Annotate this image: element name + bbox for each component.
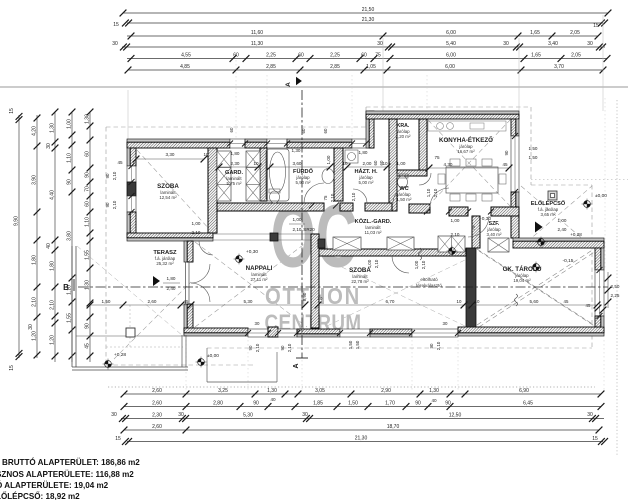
svg-text:1,80: 1,80 — [49, 261, 55, 271]
svg-text:1,50: 1,50 — [529, 155, 538, 160]
svg-text:6,90: 6,90 — [519, 388, 529, 394]
svg-text:10: 10 — [457, 299, 462, 304]
svg-text:3,05: 3,05 — [315, 388, 325, 394]
pillar nappali bottom — [268, 327, 278, 337]
svg-text:30: 30 — [587, 412, 593, 418]
door arc szf entry — [468, 216, 489, 237]
wall kitchen right seg1 — [516, 119, 519, 136]
svg-text:10: 10 — [342, 161, 348, 166]
svg-text:NAPPALI: NAPPALI — [246, 265, 273, 272]
door arc hazt — [353, 189, 367, 203]
svg-text:1,50: 1,50 — [529, 146, 538, 151]
svg-text:30: 30 — [587, 41, 593, 47]
break wave 1 — [419, 248, 422, 260]
roof overhang dashed kitchen top — [366, 106, 531, 108]
chimney square — [548, 191, 557, 200]
watermark OTTHON — [265, 283, 361, 310]
diagonal elolepcso — [521, 186, 592, 247]
svg-text:30: 30 — [112, 41, 118, 47]
svg-text:3,40 m²: 3,40 m² — [487, 232, 502, 237]
wall exterior top seg3 — [287, 139, 352, 142]
guide line right wall — [602, 15, 604, 111]
diagonal terasz — [114, 282, 191, 359]
wall terasz-nappali seg2 — [184, 304, 187, 335]
window gk right — [595, 270, 604, 316]
svg-text:4,40: 4,40 — [49, 190, 55, 200]
svg-text:2,10: 2,10 — [192, 230, 201, 235]
pillar left wall — [127, 182, 136, 196]
roof overhang dashed top-left — [106, 126, 366, 128]
svg-text:+0,30: +0,30 — [246, 249, 258, 255]
corridor closet 3 — [438, 236, 465, 252]
diagonal szoba1 — [137, 150, 211, 231]
svg-text:45: 45 — [117, 160, 123, 165]
svg-text:70: 70 — [84, 186, 90, 192]
pillar on beam — [270, 233, 278, 241]
svg-text:1,30: 1,30 — [84, 280, 90, 290]
svg-text:6,70: 6,70 — [386, 299, 395, 304]
dim row top-5 4,55/60/2,25/60/2,25/60/75/6,00/1,65/2,05 — [127, 58, 607, 60]
wall gk top — [513, 238, 604, 241]
svg-text:2,10: 2,10 — [255, 343, 260, 352]
section marker A top — [296, 77, 302, 85]
wall corridor top seg5 — [491, 207, 519, 216]
front step outline — [206, 348, 208, 382]
door arc kra — [419, 173, 431, 185]
window szoba2 bottom 1 — [340, 329, 370, 337]
svg-text:SZNOS ALAPTERÜLETE: 116,88 m2: SZNOS ALAPTERÜLETE: 116,88 m2 — [0, 470, 134, 479]
svg-text:BRUTTÓ ALAPTERÜLET: 186,86 m2: BRUTTÓ ALAPTERÜLET: 186,86 m2 — [2, 458, 140, 467]
guide line left wall axis — [127, 90, 129, 139]
svg-text:30: 30 — [111, 412, 117, 418]
diagonal konyha 1 — [428, 120, 510, 206]
flake right — [582, 203, 593, 205]
svg-text:1,50 m²: 1,50 m² — [397, 197, 412, 202]
entry arrow nappali — [153, 276, 160, 286]
roof overhang dashed elolepcso top — [531, 184, 592, 186]
terasz edge left — [71, 246, 73, 367]
svg-text:1,00: 1,00 — [66, 119, 72, 129]
svg-text:eltolható: eltolható — [420, 277, 438, 282]
svg-text:1,30: 1,30 — [429, 388, 439, 394]
wall furdo-hazt — [334, 148, 343, 201]
kitchen chairs bottom — [450, 194, 460, 201]
dim col left-5 small chain — [89, 112, 91, 362]
svg-text:1,00: 1,00 — [293, 217, 302, 222]
svg-text:90: 90 — [84, 323, 90, 329]
diagonal konyha 2 — [428, 120, 510, 206]
svg-text:5,90 m²: 5,90 m² — [296, 180, 311, 185]
svg-text:1,00: 1,00 — [558, 218, 567, 223]
roof overhang dashed right upper — [530, 107, 532, 185]
guide dotted verticals bottom — [185, 340, 187, 392]
svg-text:1,30: 1,30 — [49, 123, 55, 133]
dim row bottom-1 — [124, 393, 601, 395]
window szoba2 bottom 2 — [412, 329, 458, 337]
flake terasz — [196, 361, 207, 363]
svg-text:15: 15 — [9, 108, 15, 114]
svg-text:térelválasztó: térelválasztó — [416, 283, 442, 288]
dim row bottom-3 — [121, 418, 604, 420]
svg-text:1,20: 1,20 — [49, 335, 55, 345]
wall kra-konyha — [419, 119, 427, 173]
door arc wc — [393, 187, 409, 203]
svg-text:+0,28: +0,28 — [570, 232, 582, 237]
svg-text:30: 30 — [302, 412, 308, 418]
svg-text:8,90: 8,90 — [302, 292, 307, 301]
diagonal nappali 2 — [195, 242, 307, 327]
svg-text:5,40: 5,40 — [446, 41, 456, 47]
svg-text:1,55: 1,55 — [84, 250, 90, 260]
watermark OC logo — [271, 186, 358, 286]
bathtub — [266, 149, 289, 201]
svg-text:2,10: 2,10 — [287, 343, 292, 352]
svg-text:1,10: 1,10 — [84, 217, 90, 227]
door arc szoba1 — [199, 241, 213, 255]
washbasin furdo — [322, 169, 334, 184]
svg-text:25,32 m²: 25,32 m² — [156, 261, 174, 266]
wall szoba2 bottom seg — [370, 334, 412, 337]
svg-text:6,00: 6,00 — [445, 64, 455, 70]
svg-text:1,80: 1,80 — [359, 150, 368, 155]
svg-text:2,25: 2,25 — [611, 293, 620, 298]
svg-text:KONYHA-ÉTKEZŐ: KONYHA-ÉTKEZŐ — [439, 136, 493, 144]
wall exterior top seg1 — [127, 139, 230, 142]
svg-text:1,50: 1,50 — [102, 299, 111, 304]
svg-text:1,65: 1,65 — [531, 53, 541, 59]
wall exterior top seg2 — [245, 139, 267, 142]
svg-text:90: 90 — [84, 172, 90, 178]
svg-text:2,50: 2,50 — [611, 284, 620, 289]
watermark CENTRUM — [264, 311, 361, 336]
svg-text:5,30: 5,30 — [243, 413, 253, 419]
window left 90 lower — [127, 196, 136, 212]
svg-text:90: 90 — [415, 401, 421, 407]
dim col left-3 1,30/30/4,40/40/1,80/1,20/2,10 — [54, 112, 56, 362]
dim row top-6 4,85/2,85/2,85/1,05/6,00/3,70 — [128, 69, 603, 71]
svg-text:1,00: 1,00 — [326, 155, 331, 164]
roof overhang dashed right — [591, 185, 593, 348]
wall szf left — [472, 216, 480, 248]
wall opening edge ticks — [227, 141, 233, 147]
svg-text:2,10: 2,10 — [49, 300, 55, 310]
svg-text:21,30: 21,30 — [362, 17, 375, 23]
svg-text:2,80: 2,80 — [213, 401, 223, 407]
svg-text:2,10: 2,10 — [374, 259, 379, 268]
svg-text:60: 60 — [379, 160, 384, 165]
wall gard-furdo — [260, 148, 267, 201]
svg-text:1,05: 1,05 — [366, 64, 376, 70]
svg-text:60: 60 — [298, 53, 304, 59]
svg-text:2,00: 2,00 — [363, 161, 372, 166]
kitchen chair left — [438, 174, 445, 184]
wall exterior left seg2 — [127, 212, 130, 233]
svg-text:SZOBA: SZOBA — [157, 183, 179, 190]
window left 90 upper — [127, 166, 136, 182]
svg-text:30: 30 — [46, 143, 52, 149]
guide line kitchen left — [382, 38, 384, 111]
svg-text:40: 40 — [431, 398, 437, 403]
roof overhang dashed bottom — [207, 347, 592, 349]
dim row top-3 11,60 / 6,00 / 1,65 / 2,05 — [127, 35, 598, 37]
break wave 2 — [515, 294, 518, 306]
toilet furdo — [269, 189, 280, 193]
svg-text:4,55: 4,55 — [181, 53, 191, 59]
window top HAZT 1,80 — [352, 139, 374, 148]
dim col left-4 1,00/40/1,10/90/3,80/1,10 — [71, 112, 73, 362]
svg-text:2,10: 2,10 — [330, 193, 335, 202]
svg-text:2,10: 2,10 — [112, 171, 117, 180]
terasz edge bottom — [72, 366, 188, 368]
svg-text:60: 60 — [361, 53, 367, 59]
svg-text:3,80: 3,80 — [66, 231, 72, 241]
svg-text:+0,28: +0,28 — [114, 352, 126, 358]
svg-text:1,00: 1,00 — [397, 161, 406, 166]
svg-text:2,90: 2,90 — [381, 388, 391, 394]
dim row bottom-2 — [124, 406, 601, 408]
svg-text:2,60: 2,60 — [152, 388, 162, 394]
svg-text:1,85: 1,85 — [313, 401, 323, 407]
svg-text:75: 75 — [471, 225, 476, 230]
section line A-A vertical — [301, 90, 303, 358]
wall gk right seg2 — [601, 316, 604, 327]
dim row bottom-5 — [127, 441, 603, 443]
svg-text:KÖZL.-GARD.: KÖZL.-GARD. — [355, 218, 392, 225]
svg-text:90: 90 — [280, 345, 285, 350]
svg-text:30: 30 — [178, 412, 184, 418]
terasz post — [126, 328, 135, 337]
svg-text:22,78 m²: 22,78 m² — [351, 279, 369, 284]
dim row top-4 30 / 11,30 / 30 / 5,40 / 30 / 3,40 / 30 — [122, 46, 605, 48]
svg-text:2,10: 2,10 — [433, 188, 438, 197]
svg-text:90: 90 — [429, 343, 434, 348]
section line B-B horizontal — [78, 286, 608, 288]
gard closet left — [217, 151, 231, 201]
svg-text:1,80: 1,80 — [31, 255, 37, 265]
svg-text:27,11 m²: 27,11 m² — [250, 277, 268, 282]
svg-text:11,30: 11,30 — [251, 41, 263, 47]
svg-text:3,30: 3,30 — [166, 152, 175, 157]
svg-text:4,30: 4,30 — [444, 162, 453, 167]
svg-text:2,05: 2,05 — [570, 30, 580, 36]
svg-text:2,10: 2,10 — [451, 232, 460, 237]
svg-text:2,60: 2,60 — [152, 424, 162, 430]
svg-text:6,00: 6,00 — [446, 53, 456, 59]
svg-text:30: 30 — [503, 41, 509, 47]
flake gk — [531, 266, 542, 268]
svg-text:2,10: 2,10 — [31, 297, 37, 307]
svg-text:1,50: 1,50 — [348, 401, 358, 407]
door arc furdo — [304, 183, 324, 203]
svg-text:90: 90 — [445, 401, 451, 407]
terasz edge right — [181, 335, 183, 367]
roof overhang dashed kitchen step — [365, 107, 367, 127]
svg-text:75: 75 — [434, 155, 440, 160]
svg-text:2,85: 2,85 — [266, 64, 276, 70]
pillar stem top — [318, 239, 325, 248]
svg-text:2,25: 2,25 — [266, 53, 276, 59]
door arc szoba2 — [392, 256, 409, 273]
door arc terasz leaf2 — [191, 283, 210, 302]
dim row top-2 21,30 with 15 end labels — [127, 22, 603, 24]
flake corridor — [447, 250, 458, 252]
svg-text:2,40: 2,40 — [558, 227, 567, 232]
svg-text:1,00: 1,00 — [192, 221, 201, 226]
svg-text:90: 90 — [66, 179, 72, 185]
corridor closet 1 — [333, 237, 361, 250]
svg-text:±0,00: ±0,00 — [595, 193, 607, 199]
svg-text:2,30: 2,30 — [152, 413, 162, 419]
svg-text:5,60: 5,60 — [530, 299, 539, 304]
terasz dashed guide — [106, 346, 183, 348]
svg-text:45: 45 — [502, 162, 508, 167]
svg-text:2,25: 2,25 — [330, 53, 340, 59]
svg-text:30: 30 — [28, 324, 34, 330]
svg-text:21,50: 21,50 — [362, 7, 375, 13]
plot dotted line right — [616, 100, 618, 455]
washing machine — [345, 150, 358, 163]
svg-text:1,80: 1,80 — [167, 276, 176, 281]
svg-text:1,70: 1,70 — [385, 401, 395, 407]
svg-text:12,50: 12,50 — [449, 413, 462, 419]
svg-text:+0,30: +0,30 — [479, 216, 491, 222]
wall corridor top seg3 — [409, 204, 430, 213]
svg-text:1,00: 1,00 — [414, 260, 419, 269]
wall corridor top seg2 — [365, 203, 392, 211]
svg-text:1,00: 1,00 — [451, 218, 460, 223]
diagonal nappali 1 — [195, 242, 307, 327]
svg-text:3,90: 3,90 — [31, 175, 37, 185]
svg-text:15: 15 — [113, 22, 119, 28]
svg-text:5,30: 5,30 — [244, 299, 253, 304]
svg-text:2,10: 2,10 — [112, 200, 117, 209]
gard closet right — [246, 151, 260, 201]
flake nappali — [234, 258, 245, 260]
corridor closet 4 szf — [488, 238, 509, 252]
svg-text:90: 90 — [248, 345, 253, 350]
wall corridor top seg4 — [449, 207, 468, 216]
kitchen counter — [428, 121, 506, 131]
svg-text:2,30: 2,30 — [231, 161, 240, 166]
guide line kitchen right — [518, 38, 520, 111]
svg-text:60: 60 — [323, 128, 328, 133]
svg-text:1,65: 1,65 — [530, 30, 540, 36]
beam line over nappali opening — [213, 233, 311, 235]
entry arrow szf — [535, 222, 543, 233]
svg-text:3,60: 3,60 — [293, 161, 302, 166]
window nappali bottom 1 — [248, 329, 268, 337]
svg-text:1,30: 1,30 — [292, 148, 301, 153]
svg-text:2,85: 2,85 — [330, 64, 340, 70]
toilet wc — [397, 174, 408, 178]
window top FURDO — [267, 139, 287, 148]
wall corridor top stub — [340, 203, 353, 211]
svg-text:30: 30 — [443, 321, 448, 326]
svg-text:30: 30 — [318, 296, 323, 301]
svg-text:90: 90 — [253, 401, 259, 407]
kitchen table — [446, 167, 498, 193]
svg-text:15: 15 — [593, 23, 599, 29]
svg-text:2,60: 2,60 — [148, 299, 157, 304]
roof overhang dashed left — [105, 127, 107, 365]
kitchen chair right — [499, 174, 506, 184]
svg-text:4,20: 4,20 — [31, 126, 37, 136]
flake terasz2 — [103, 363, 114, 365]
dim row top-1 total 21,50 — [123, 12, 608, 14]
glass door terasz — [185, 262, 187, 304]
wall nappali bottom seg1 — [184, 333, 248, 336]
wall gk left — [466, 248, 476, 327]
svg-text:45: 45 — [184, 299, 189, 304]
svg-text:90: 90 — [105, 173, 110, 178]
window kitchen right — [511, 136, 519, 192]
svg-text:19,04 m²: 19,04 m² — [513, 278, 531, 283]
diagonal szoba2 1 — [327, 260, 465, 326]
dim col left-2 4,20/3,90/1,80/2,10/1,20 — [36, 115, 38, 358]
terasz slab line — [76, 335, 184, 337]
svg-text:21,30: 21,30 — [355, 436, 368, 442]
svg-text:75: 75 — [375, 53, 381, 59]
wall corridor bottom / szoba2 top — [319, 249, 466, 256]
svg-text:15: 15 — [115, 436, 121, 442]
wall corridor top seg1 — [217, 203, 324, 211]
svg-text:B: B — [63, 283, 69, 292]
diagonal szoba2 2 — [327, 260, 465, 326]
svg-text:LŐLÉPCSŐ: 18,92 m2: LŐLÉPCSŐ: 18,92 m2 — [0, 492, 80, 500]
svg-text:±0,00: ±0,00 — [207, 353, 219, 359]
diagonal gk-tarolo double X — [477, 249, 594, 325]
svg-text:6,45: 6,45 — [523, 401, 533, 407]
svg-text:16,67 m²: 16,67 m² — [457, 149, 475, 154]
wall kitchen right lower — [511, 216, 519, 238]
wall exterior top seg4 + step — [366, 111, 369, 148]
dims right side 2,50 2,25 — [607, 272, 609, 308]
svg-text:1,50: 1,50 — [348, 340, 353, 349]
guide dotted verticals top — [235, 60, 237, 139]
svg-text:10: 10 — [475, 299, 480, 304]
svg-text:1,30: 1,30 — [84, 114, 90, 124]
svg-text:60: 60 — [233, 53, 239, 59]
dotted line right upper — [531, 179, 628, 181]
svg-text:2,10: 2,10 — [436, 341, 441, 350]
svg-text:10: 10 — [253, 161, 259, 166]
flake elolepcso — [536, 241, 547, 243]
svg-text:3,25: 3,25 — [218, 388, 228, 394]
svg-text:2,10: 2,10 — [351, 192, 356, 201]
svg-text:3,65 m²: 3,65 m² — [541, 212, 556, 217]
svg-text:A: A — [293, 363, 300, 368]
svg-text:11,03 m²: 11,03 m² — [364, 230, 382, 235]
svg-text:1,10: 1,10 — [66, 153, 72, 163]
svg-text:3,70: 3,70 — [554, 64, 564, 70]
svg-text:1,10: 1,10 — [426, 188, 431, 197]
svg-text:2,40: 2,40 — [167, 286, 176, 291]
svg-text:2,60: 2,60 — [152, 401, 162, 407]
svg-text:1,50: 1,50 — [355, 340, 360, 349]
svg-text:45: 45 — [564, 299, 569, 304]
frame line — [0, 86, 628, 88]
svg-text:30: 30 — [255, 321, 260, 326]
door arc terasz leaf1 — [191, 264, 210, 283]
svg-text:60: 60 — [84, 201, 90, 207]
svg-text:-0,15: -0,15 — [563, 258, 574, 264]
svg-text:15: 15 — [592, 436, 598, 442]
svg-text:90: 90 — [504, 150, 509, 155]
svg-text:2,10: 2,10 — [293, 227, 302, 232]
svg-text:40: 40 — [46, 243, 52, 249]
svg-text:HÁZT. H.: HÁZT. H. — [355, 168, 378, 175]
svg-text:4,85: 4,85 — [180, 64, 190, 70]
